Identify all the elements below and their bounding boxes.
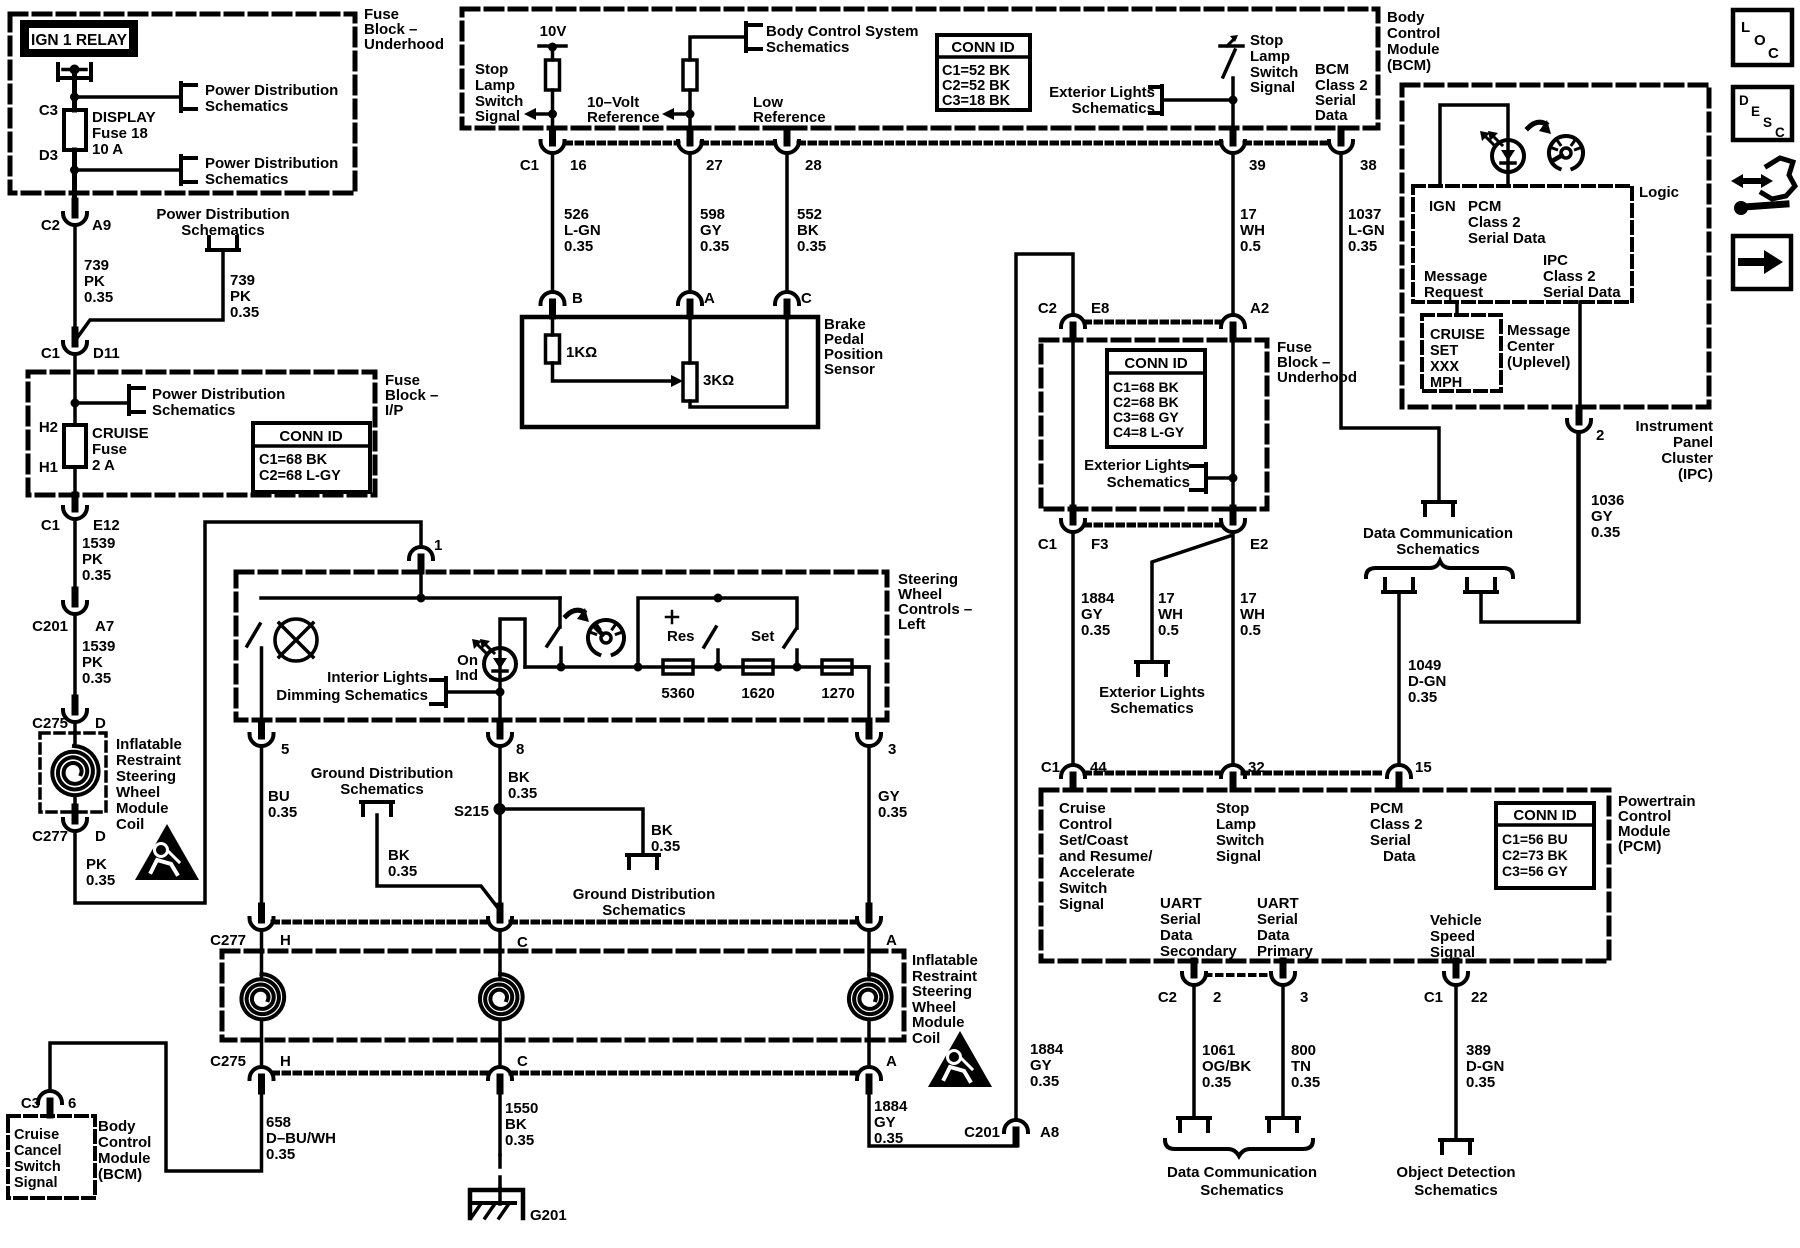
svg-text:DISPLAY: DISPLAY [92,109,156,126]
connector pin 28 [784,129,791,143]
svg-text:SET: SET [1430,343,1458,359]
fuse F DISPLAY Fuse 18 10A [64,110,86,150]
svg-text:Object Detection: Object Detection [1396,1164,1515,1181]
svg-text:739: 739 [84,257,109,274]
svg-text:0.35: 0.35 [1591,524,1620,541]
wire branch power distribution 4 [75,401,129,405]
svg-text:Schematics: Schematics [1200,1182,1283,1199]
svg-text:1884: 1884 [874,1098,908,1115]
svg-text:0.35: 0.35 [700,238,729,255]
svg-text:22: 22 [1471,989,1488,1006]
svg-text:BK: BK [508,769,530,786]
gauge speed symbol [588,620,624,655]
svg-text:D-GN: D-GN [1466,1058,1504,1075]
svg-text:Fuse 18: Fuse 18 [92,125,148,142]
wire 1037 L-GN pin 38 down [1341,153,1439,500]
wire 1550 BK [498,1091,502,1155]
svg-text:Message: Message [1424,268,1487,285]
svg-text:Lamp: Lamp [1250,48,1290,65]
led cruise indicator ipc [1492,140,1524,172]
svg-text:Lamp: Lamp [1216,816,1256,833]
svg-text:PK: PK [86,856,107,873]
svg-text:A: A [704,290,715,307]
svg-text:0.35: 0.35 [878,804,907,821]
svg-text:PK: PK [84,273,105,290]
svg-text:Schematics: Schematics [205,171,288,188]
svg-text:WH: WH [1158,606,1183,623]
svg-text:Ground Distribution: Ground Distribution [573,886,715,903]
wire D11 to cruise fuse [73,354,77,425]
svg-text:Interior Lights: Interior Lights [327,669,428,686]
svg-text:C201: C201 [32,618,68,635]
wire 3K bottom to pin C [690,316,787,407]
powertrain control module box [1041,790,1609,961]
svg-text:27: 27 [706,157,723,174]
ref object detection [1440,1138,1472,1142]
relay output terminal [56,64,60,80]
svg-text:L: L [1741,19,1750,36]
svg-text:1539: 1539 [82,638,115,655]
svg-text:G201: G201 [530,1207,567,1224]
svg-text:Coil: Coil [912,1030,940,1047]
svg-text:Control: Control [1387,25,1440,42]
svg-text:1: 1 [434,537,442,554]
svg-text:Exterior Lights: Exterior Lights [1049,84,1155,101]
svg-text:0.35: 0.35 [84,289,113,306]
brake pedal position sensor box [522,317,818,427]
wire branch 739 PK from power distribution [77,250,223,338]
svg-text:PK: PK [82,654,103,671]
connector row C1 BCM [566,141,678,146]
svg-text:C: C [801,290,812,307]
relay K IGN 1 RELAY [20,20,138,57]
wire 598 GY [688,153,692,290]
svg-text:D: D [1739,93,1749,108]
svg-text:Serial: Serial [1257,911,1298,928]
svg-text:B: B [572,290,583,307]
svg-text:3: 3 [1300,989,1308,1006]
svg-text:Restraint: Restraint [116,752,181,769]
svg-text:Body Control System: Body Control System [766,23,919,40]
svg-text:C2=68 L-GY: C2=68 L-GY [259,468,341,484]
connector pin 1 steering wheel [418,557,425,571]
svg-text:BK: BK [388,847,410,864]
svg-text:D: D [95,828,106,845]
svg-text:Power Distribution: Power Distribution [205,82,338,99]
svg-text:C1: C1 [1038,536,1057,553]
svg-text:Serial: Serial [1370,832,1411,849]
ref data communication top [1423,500,1455,504]
svg-text:WH: WH [1240,222,1265,239]
svg-text:BK: BK [505,1116,527,1133]
svg-text:BK: BK [651,822,673,839]
icon desc box [1733,87,1792,140]
svg-text:0.35: 0.35 [266,1146,295,1163]
svg-text:Signal: Signal [475,108,520,125]
svg-text:E12: E12 [93,517,120,534]
connector C2 pin 2 [1191,961,1198,975]
wire A into coil 3 [867,930,871,976]
svg-text:Res: Res [667,628,695,645]
svg-text:800: 800 [1291,1042,1316,1059]
svg-text:H2: H2 [39,419,58,436]
wire ipc pin2 down [1577,432,1581,622]
svg-text:D: D [95,715,106,732]
inflatable restraint coil module box [222,951,904,1040]
svg-text:Switch: Switch [14,1159,61,1175]
wire 17 WH E2 branch to exterior lights [1152,536,1230,662]
wire 1049 D-GN to pin 15 [1397,592,1401,763]
svg-text:Lamp: Lamp [475,77,515,94]
lamp symbol backlight [275,619,317,661]
svg-text:C3=18 BK: C3=18 BK [942,93,1011,109]
svg-text:D–BU/WH: D–BU/WH [266,1130,336,1147]
svg-text:Dimming Schematics: Dimming Schematics [276,687,428,704]
wire resistor bus [525,665,869,669]
connector pin 38 [1338,129,1345,143]
svg-text:Serial: Serial [1160,911,1201,928]
svg-text:C2: C2 [1158,989,1177,1006]
wire A into 3K [688,316,692,363]
svg-text:D11: D11 [93,345,120,362]
connector pin E2 [1230,508,1237,522]
svg-text:15: 15 [1415,759,1432,776]
wire switch to connector 5 [260,648,264,722]
fuse block underhood box [10,14,355,193]
svg-text:GY: GY [1030,1057,1052,1074]
svg-text:16: 16 [570,157,587,174]
svg-text:6: 6 [68,1095,76,1112]
svg-text:C1=56 BU: C1=56 BU [1502,831,1568,847]
svg-text:Secondary: Secondary [1160,943,1237,960]
svg-text:32: 32 [1248,759,1265,776]
svg-text:Cruise: Cruise [1059,800,1106,817]
svg-text:Accelerate: Accelerate [1059,864,1135,881]
svg-text:D-GN: D-GN [1408,673,1446,690]
wire 17 WH pin 39 to A2 [1231,153,1235,315]
conn id table pcm [1496,803,1594,888]
wire 1539 PK segment E12 to A7 [73,519,77,605]
svg-text:Reference: Reference [587,109,660,126]
wire ground distribution left branch [377,815,498,908]
svg-text:Module: Module [912,1014,965,1031]
switch res blade [704,627,716,647]
svg-text:Class 2: Class 2 [1543,268,1596,285]
svg-text:C1: C1 [1041,759,1060,776]
wire 389 D-GN [1454,985,1458,1140]
svg-text:IGN 1 RELAY: IGN 1 RELAY [31,32,128,49]
svg-text:Schematics: Schematics [340,781,423,798]
svg-text:Stop: Stop [1250,32,1283,49]
svg-text:1037: 1037 [1348,206,1381,223]
wire fuse D3 down [72,150,77,201]
svg-text:Schematics: Schematics [1414,1182,1497,1199]
wire led top loop [500,619,525,667]
connector C1 pin F3 [1070,508,1077,522]
svg-text:Cancel: Cancel [14,1143,62,1159]
connector pin 5 [258,722,265,736]
wire low reference stub [785,128,789,130]
svg-text:1884: 1884 [1030,1041,1064,1058]
svg-text:PCM: PCM [1370,800,1403,817]
wire message request to cruise display [1455,302,1459,315]
svg-text:A: A [886,932,897,949]
svg-text:GY: GY [700,222,722,239]
warning triangle airbag right [928,1031,992,1087]
svg-text:C: C [1775,125,1785,140]
svg-text:CRUISE: CRUISE [1430,327,1485,343]
svg-text:Set: Set [751,628,774,645]
svg-text:C2=73 BK: C2=73 BK [1502,847,1568,863]
wire dimming ref to led node [446,690,500,694]
connector C277 pin C [497,906,504,920]
svg-text:PK: PK [82,551,103,568]
svg-text:XXX: XXX [1430,359,1459,375]
ref power distribution schematics 2 [179,156,183,184]
svg-text:Serial Data: Serial Data [1468,230,1546,247]
svg-text:1061: 1061 [1202,1042,1235,1059]
node exterior lights junction [1229,474,1238,483]
wire led to logic box [1506,172,1510,186]
wire branch power distribution 1 [75,95,182,99]
wire 1539 PK segment A7 to C275 [73,614,77,698]
svg-text:1884: 1884 [1081,590,1115,607]
svg-text:0.35: 0.35 [797,238,826,255]
svg-text:1550: 1550 [505,1100,538,1117]
wire 1884 GY from C275 A [869,1091,1016,1146]
svg-text:Switch: Switch [1216,832,1264,849]
brace data communication bottom [1165,1140,1313,1156]
svg-text:0.35: 0.35 [388,863,417,880]
svg-text:3: 3 [888,741,896,758]
svg-text:Inflatable: Inflatable [116,736,182,753]
svg-text:Schematics: Schematics [205,98,288,115]
ref data comm pin3 [1267,1116,1299,1120]
svg-text:PCM: PCM [1468,198,1501,215]
svg-text:D3: D3 [39,147,58,164]
svg-text:Set/Coast: Set/Coast [1059,832,1128,849]
node junction to power distribution 2 [70,166,79,175]
ref data comm left leg [1383,590,1415,594]
svg-text:IPC: IPC [1543,252,1568,269]
ref power distribution schematics 1 [179,83,183,111]
instrument panel cluster box [1402,85,1709,407]
svg-text:Data: Data [1383,848,1416,865]
svg-text:C1=52 BK: C1=52 BK [942,63,1011,79]
coil 3 [849,974,892,1019]
svg-text:Data: Data [1315,107,1348,124]
svg-text:S: S [1763,115,1772,130]
svg-text:Schematics: Schematics [1110,700,1193,717]
connector C275 pin C [497,1077,504,1091]
switch on-off left blade [247,624,260,646]
body control module box [462,9,1378,128]
svg-text:C3: C3 [21,1095,40,1112]
svg-text:598: 598 [700,206,725,223]
plus res label [666,616,678,619]
svg-text:F3: F3 [1091,536,1109,553]
svg-text:Signal: Signal [1059,896,1104,913]
svg-text:A9: A9 [92,217,111,234]
svg-text:BCM: BCM [1315,61,1349,78]
wire H into coil 1 [260,930,264,976]
ref data comm pin2 [1178,1116,1210,1120]
svg-text:10 A: 10 A [92,141,123,158]
wire res set upper branch [638,598,797,667]
svg-text:Ground Distribution: Ground Distribution [311,765,453,782]
svg-text:C2: C2 [1038,300,1057,317]
svg-text:Switch: Switch [1059,880,1107,897]
svg-text:Class 2: Class 2 [1468,214,1521,231]
node stop lamp junction [1229,96,1238,105]
svg-text:CONN ID: CONN ID [1513,807,1577,824]
connector pin A2 [1230,325,1237,339]
wire 1884 GY F3 to pin 44 [1071,532,1075,763]
connector row C1 F3 [1085,523,1221,528]
connector pin B sensor [549,302,556,316]
svg-text:Power Distribution: Power Distribution [152,386,285,403]
connector ipc pin 2 [1576,408,1583,422]
ref power distribution schematics 4 [127,386,131,414]
resistor stop lamp pullup [546,60,560,90]
svg-text:E2: E2 [1250,536,1268,553]
svg-text:Logic: Logic [1639,184,1679,201]
svg-text:Stop: Stop [475,61,508,78]
brace data communication [1366,561,1513,577]
wire data comm to ipc connector 2 [1481,432,1578,622]
svg-text:2: 2 [1596,427,1604,444]
svg-text:Class 2: Class 2 [1370,816,1423,833]
svg-text:C201: C201 [964,1124,1000,1141]
svg-text:C1: C1 [1424,989,1443,1006]
svg-text:GY: GY [1081,606,1103,623]
wire coil to C277 D [73,798,77,807]
svg-text:Body: Body [1387,9,1425,26]
svg-text:3KΩ: 3KΩ [703,372,734,389]
svg-text:Control: Control [1059,816,1112,833]
svg-text:0.35: 0.35 [230,304,259,321]
svg-text:IGN: IGN [1429,198,1456,215]
fuse F CRUISE Fuse 2A [64,425,86,467]
svg-text:H1: H1 [39,459,58,476]
svg-text:Exterior Lights: Exterior Lights [1084,457,1190,474]
wire stop lamp switch to pin 39 [1231,78,1235,129]
wire PK from C277 D routed to steering wheel connector 1 [75,522,421,903]
coil 2 [480,974,523,1019]
connector pin 3 [866,722,873,736]
connector C275 pin A [866,1077,873,1091]
svg-text:0.35: 0.35 [651,838,680,855]
svg-text:(Uplevel): (Uplevel) [1507,354,1570,371]
svg-text:E8: E8 [1091,300,1109,317]
fuse block underhood right box [1041,340,1267,509]
warning triangle airbag left [135,824,199,880]
svg-text:Body: Body [98,1118,136,1135]
svg-text:Steering: Steering [116,768,176,785]
svg-text:OG/BK: OG/BK [1202,1058,1251,1075]
svg-text:658: 658 [266,1114,291,1131]
svg-text:Module: Module [98,1150,151,1167]
wire A2 to E2 inside fuse block [1231,339,1235,508]
node stop lamp switch signal [548,110,557,119]
svg-text:0.35: 0.35 [1348,238,1377,255]
svg-text:C275: C275 [210,1053,246,1070]
svg-text:0.5: 0.5 [1158,622,1179,639]
svg-text:Cruise: Cruise [14,1127,59,1143]
svg-text:A: A [886,1053,897,1070]
wire dashed to ground [498,1155,502,1188]
svg-text:A7: A7 [95,618,114,635]
conn id table fuse block right [1107,350,1205,447]
svg-text:0.35: 0.35 [82,670,111,687]
ref ground distribution right [627,853,659,857]
resistor 10 volt reference [683,60,697,90]
icon next arrow box [1733,236,1791,289]
svg-text:Data: Data [1257,927,1290,944]
svg-text:C: C [1768,45,1779,62]
icon double arrow glyph [1739,178,1765,184]
svg-text:A2: A2 [1250,300,1269,317]
wire 526 L-GN [551,153,555,290]
svg-text:Schematics: Schematics [152,402,235,419]
connector pin C sensor [784,302,791,316]
svg-text:C1=68 BK: C1=68 BK [259,452,328,468]
node junction to power distribution 4 [71,399,80,408]
connector C1 pin 22 [1453,961,1460,975]
node top wire junction [417,594,426,603]
svg-text:GY: GY [878,788,900,805]
svg-text:(PCM): (PCM) [1618,838,1661,855]
svg-text:Data Communication: Data Communication [1363,525,1513,542]
svg-text:Schematics: Schematics [1072,100,1155,117]
wire ign loop ipc [1440,105,1508,186]
coil box dashed [40,733,106,812]
node splice S215 [494,803,506,815]
svg-text:389: 389 [1466,1042,1491,1059]
wire relay to fuse C3 [72,74,77,110]
svg-text:C1: C1 [41,345,60,362]
wire 5 BU to C277 H [260,746,264,906]
wire coil3 to C275 A [867,1021,871,1067]
svg-text:1620: 1620 [741,685,774,702]
connector row C275 [273,1071,487,1076]
svg-text:0.35: 0.35 [505,1132,534,1149]
svg-text:0.35: 0.35 [1291,1074,1320,1091]
svg-text:UART: UART [1257,895,1299,912]
led on indicator [484,648,516,680]
svg-text:Ind: Ind [456,667,479,684]
svg-text:C277: C277 [210,932,246,949]
svg-text:Fuse: Fuse [92,441,127,458]
coil 1 [241,974,284,1019]
svg-text:0.35: 0.35 [1202,1074,1231,1091]
wire branch power distribution 2 [75,168,182,172]
svg-text:1539: 1539 [82,535,115,552]
wire coil2 to C275 C [498,1021,502,1067]
svg-text:BK: BK [797,222,819,239]
ref exterior lights schematics below [1136,660,1168,664]
wire ipc serial data down [1578,302,1582,408]
svg-text:Reference: Reference [753,109,826,126]
switch cruise main blade [558,598,562,627]
resistor 1270 [822,660,852,674]
connector row C277 [273,920,487,925]
resistor 3K potentiometer [683,363,697,401]
connector C277 pin D [72,807,79,821]
svg-text:0.35: 0.35 [1408,689,1437,706]
wire C275 D to coil [73,722,77,746]
svg-text:17: 17 [1240,590,1257,607]
